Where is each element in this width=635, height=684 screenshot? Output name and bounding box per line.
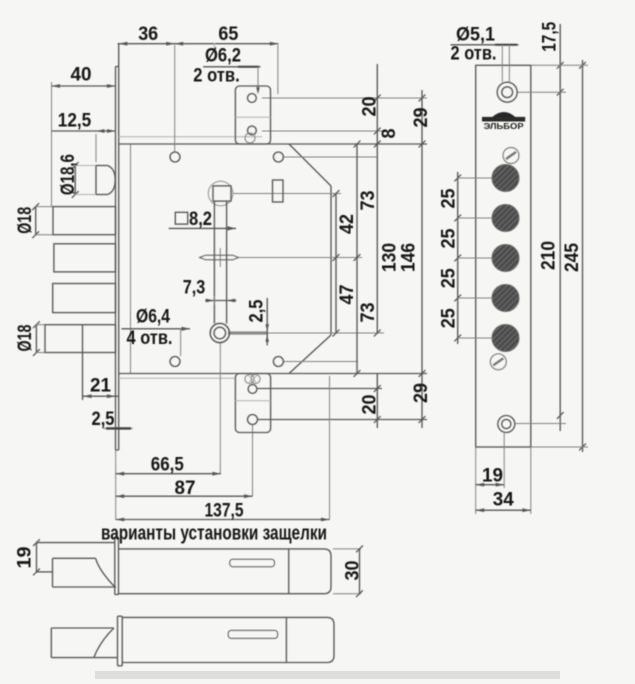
svg-text:47: 47	[337, 285, 358, 305]
svg-text:Ø6,2: Ø6,2	[205, 46, 241, 67]
svg-text:8,2: 8,2	[189, 209, 212, 230]
svg-text:2 отв.: 2 отв.	[451, 44, 497, 65]
svg-text:36: 36	[138, 24, 158, 45]
svg-text:Ø5,1: Ø5,1	[456, 25, 495, 46]
svg-text:146: 146	[398, 243, 419, 272]
svg-text:87: 87	[175, 478, 196, 499]
svg-text:245: 245	[562, 243, 583, 272]
svg-text:65: 65	[218, 24, 238, 45]
svg-text:19: 19	[482, 466, 503, 487]
svg-text:25: 25	[438, 188, 459, 208]
svg-text:42: 42	[337, 214, 358, 234]
svg-text:25: 25	[438, 228, 459, 248]
svg-text:Ø18,6: Ø18,6	[58, 154, 79, 195]
svg-text:25: 25	[438, 308, 459, 328]
svg-text:25: 25	[438, 268, 459, 288]
svg-text:19: 19	[14, 547, 35, 569]
svg-text:2,5: 2,5	[246, 299, 267, 322]
svg-text:Ø18: Ø18	[15, 207, 36, 234]
svg-text:20: 20	[359, 395, 380, 415]
svg-text:210: 210	[538, 241, 559, 270]
svg-text:30: 30	[342, 561, 363, 581]
svg-text:2 отв.: 2 отв.	[193, 66, 240, 87]
svg-text:2,5: 2,5	[92, 409, 115, 430]
svg-text:21: 21	[90, 376, 111, 397]
svg-text:Ø18: Ø18	[15, 325, 36, 352]
svg-text:7,3: 7,3	[183, 278, 206, 299]
svg-text:29: 29	[411, 383, 432, 403]
svg-text:34: 34	[493, 490, 514, 511]
svg-text:ЭЛЬБОР: ЭЛЬБОР	[484, 121, 524, 131]
svg-text:40: 40	[71, 65, 92, 86]
svg-text:17,5: 17,5	[540, 21, 561, 51]
svg-text:73: 73	[358, 191, 379, 211]
svg-text:4 отв.: 4 отв.	[127, 328, 173, 349]
svg-text:20: 20	[359, 97, 380, 117]
svg-text:66,5: 66,5	[151, 455, 184, 476]
svg-text:варианты установки защелки: варианты установки защелки	[101, 523, 327, 545]
svg-text:130: 130	[379, 243, 400, 272]
svg-text:29: 29	[411, 108, 432, 128]
svg-text:12,5: 12,5	[58, 111, 92, 132]
svg-text:73: 73	[358, 303, 379, 323]
svg-text:Ø6,4: Ø6,4	[136, 307, 170, 328]
svg-text:8: 8	[379, 129, 400, 139]
svg-text:137,5: 137,5	[205, 501, 244, 522]
